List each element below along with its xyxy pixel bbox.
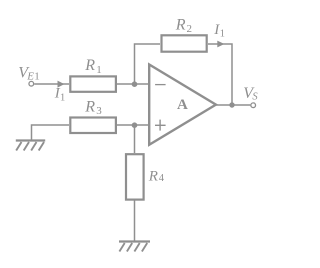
svg-text:R: R	[84, 98, 95, 115]
svg-text:S: S	[252, 91, 258, 102]
svg-text:1: 1	[220, 29, 225, 40]
svg-text:1: 1	[96, 64, 102, 76]
svg-text:1: 1	[34, 70, 40, 82]
svg-text:E: E	[26, 70, 34, 82]
svg-text:3: 3	[96, 105, 102, 117]
svg-text:1: 1	[60, 92, 65, 103]
svg-text:2: 2	[187, 23, 193, 35]
svg-text:A: A	[177, 97, 188, 113]
svg-text:R: R	[148, 168, 158, 184]
svg-text:4: 4	[159, 173, 165, 184]
svg-text:R: R	[84, 57, 95, 74]
svg-text:R: R	[175, 16, 186, 33]
